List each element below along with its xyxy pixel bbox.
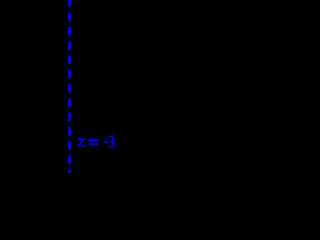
svg-text:3: 3 — [108, 132, 116, 152]
equals sign — [89, 139, 99, 141]
dashed vertical line z=-3 — [68, 0, 71, 173]
minus sign — [103, 141, 108, 143]
label z — [77, 139, 84, 147]
